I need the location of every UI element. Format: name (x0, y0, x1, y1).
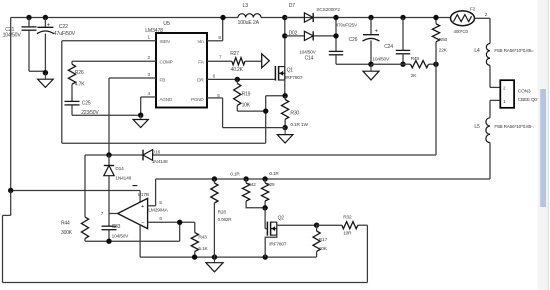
svg-text:C22: C22 (59, 24, 68, 30)
svg-text:R30: R30 (290, 111, 299, 117)
svg-text:L3: L3 (243, 3, 249, 9)
wire R19 bottom (237, 105, 265, 111)
node C21 rail junction (26, 15, 31, 20)
wire ISEN sense line (62, 142, 266, 144)
svg-text:ISEN: ISEN (160, 39, 170, 44)
capacitor C21 (3, 18, 37, 72)
svg-text:4.7K: 4.7K (75, 82, 85, 88)
op-amp U1 controller U5 LM3478 box (145, 21, 207, 107)
wire U5 pin4 AGND (141, 97, 156, 115)
wire sense line y155 (85, 154, 436, 156)
resistor R42 (230, 172, 265, 208)
wire R30 bottom (284, 119, 286, 127)
wire R44 drop (84, 155, 86, 217)
wire opamp pin5 path (148, 179, 156, 206)
node D7 cathode rail (333, 15, 338, 20)
wire gnd line (371, 63, 403, 65)
node pin6 junction (177, 220, 182, 225)
wire Q2 gate (265, 208, 267, 229)
svg-text:R29: R29 (266, 182, 275, 187)
svg-text:IRF7807: IRF7807 (269, 241, 287, 247)
resistor R29 (262, 171, 280, 208)
wire opamp pin6 line (148, 221, 195, 223)
svg-text:400*C0: 400*C0 (453, 29, 468, 34)
wire U5 pin7 FA (207, 60, 232, 62)
resistor R17 (313, 225, 328, 257)
diode D02 (285, 31, 336, 41)
diode D7 (285, 3, 341, 22)
wire L4 to CON3 (490, 65, 500, 87)
svg-text:R49: R49 (411, 56, 420, 62)
wire R26 to C25 (71, 84, 73, 101)
wire rail to Q1 column (284, 18, 286, 36)
node D7 anode rail (282, 15, 287, 20)
inductor L5 (474, 118, 533, 143)
wire Q1 drain (284, 36, 286, 67)
svg-text:0.062R: 0.062R (218, 217, 233, 222)
wire ISEN vertical (61, 41, 63, 143)
svg-text:104/50V: 104/50V (372, 57, 390, 63)
node AGND junction (138, 113, 143, 118)
ground G4 (363, 64, 379, 80)
resistor R32 (317, 215, 368, 237)
svg-text:L5: L5 (474, 124, 480, 130)
wire current setpoint bus (156, 178, 490, 180)
wire left vertical drop from rail (10, 18, 12, 191)
wire Q1 source (284, 80, 286, 96)
wire bottom rail (3, 282, 368, 284)
svg-text:R42: R42 (248, 182, 257, 187)
node D02 anode (282, 33, 287, 38)
svg-text:F5B RA56*10*0.85-.: F5B RA56*10*0.85-. (494, 124, 533, 129)
svg-text:R44: R44 (61, 221, 70, 227)
capacitor C26 electrolytic (336, 18, 380, 65)
svg-text:U17B: U17B (138, 192, 149, 198)
node FB D14 junction (106, 152, 111, 157)
svg-text:R32: R32 (343, 215, 352, 221)
resistor R49 (403, 56, 436, 79)
ground G3 (277, 128, 293, 143)
svg-text:104/50V: 104/50V (3, 33, 22, 39)
node C24 bottom (400, 61, 405, 66)
svg-text:0.1R: 0.1R (230, 172, 240, 177)
svg-text:D14: D14 (115, 166, 124, 172)
wire bottom feedback line (85, 240, 180, 242)
node R42 top (243, 176, 248, 181)
capacitor C14 (299, 49, 343, 61)
wire feedback vertical (435, 64, 437, 155)
svg-text:CON3: CON3 (518, 89, 531, 95)
node R42 R29 bottom junction (262, 205, 267, 210)
svg-text:C33: C33 (112, 224, 121, 230)
wire Q2 drain (277, 224, 317, 226)
resistor R43 (191, 222, 208, 257)
svg-text:R28: R28 (218, 209, 227, 215)
wire CON3 to L5 (490, 100, 500, 117)
svg-text:IRF7807: IRF7807 (285, 75, 303, 81)
resistor R26 (68, 61, 85, 87)
wire opamp out pin7 (109, 213, 118, 215)
svg-text:10K: 10K (242, 102, 251, 108)
inductor L4 (474, 44, 534, 66)
wire left bottom jog (3, 191, 11, 283)
svg-text:C24: C24 (384, 44, 393, 50)
capacitor C24 (372, 18, 410, 65)
wire U5 pin2 COMP (72, 60, 156, 62)
svg-text:D7: D7 (289, 3, 295, 9)
node C22 rail junction (43, 15, 48, 20)
node R29 top (262, 176, 267, 181)
ground G5 (206, 257, 223, 272)
svg-text:R43: R43 (198, 235, 207, 241)
scrollbar thumb (540, 89, 546, 207)
wire C25 bottom (72, 105, 141, 115)
svg-text:1N4148: 1N4148 (115, 176, 131, 182)
svg-text:R19: R19 (242, 92, 251, 98)
diode D16 (143, 150, 168, 165)
node R28 top (212, 176, 217, 181)
svg-text:Vin: Vin (197, 39, 204, 44)
ground G2 (133, 115, 148, 127)
svg-text:LM3478: LM3478 (145, 28, 163, 34)
resistor R19 (234, 79, 251, 108)
capacitor C33 (102, 214, 130, 242)
wire Q2 source (265, 235, 277, 257)
node R30 PGND junction (282, 125, 287, 130)
node R49 R50 junction (433, 61, 438, 66)
node left supply junction (8, 188, 13, 193)
wire R32 to bottom rail (366, 225, 368, 282)
svg-text:Q1: Q1 (287, 67, 294, 73)
svg-text:104/50V: 104/50V (112, 234, 130, 240)
capacitor C25 (65, 100, 100, 115)
resistor R44 (61, 217, 89, 241)
node C33 bottom junction (106, 239, 111, 244)
capacitor C22 (37, 18, 76, 73)
svg-text:1N4148: 1N4148 (152, 159, 168, 165)
svg-text:AGND: AGND (160, 97, 173, 102)
svg-text:40.2K: 40.2K (231, 67, 244, 73)
node D02 cathode (333, 33, 338, 38)
svg-text:F5B RA56*10*0.85=: F5B RA56*10*0.85= (494, 48, 534, 53)
svg-text:22K: 22K (439, 48, 448, 54)
svg-text:FB: FB (160, 78, 166, 83)
node Vin rail junction (220, 15, 225, 20)
svg-text:DR: DR (197, 78, 204, 83)
svg-text:10R: 10R (343, 230, 352, 236)
svg-text:+: + (47, 22, 50, 28)
resistor R30 (282, 96, 309, 128)
svg-text:PGND: PGND (191, 97, 204, 102)
resistor R50 (432, 18, 447, 65)
wire D7/D02 cathode column (335, 18, 337, 52)
wire top supply rail (11, 17, 451, 19)
scrollbar track (538, 0, 549, 290)
wire U5 pin3 FB (109, 77, 156, 79)
node gnd bottom (212, 254, 217, 259)
ground G1 (38, 73, 54, 88)
svg-text:U5: U5 (163, 21, 170, 27)
U5 pin names right (191, 39, 205, 102)
op-amp U17B LM2904A (101, 186, 169, 229)
svg-text:R17: R17 (319, 237, 328, 243)
svg-text:300K: 300K (61, 230, 73, 236)
svg-text:2K: 2K (411, 73, 417, 79)
wire U5 pin8 Vin (207, 18, 223, 41)
inductor L3 (238, 3, 262, 26)
svg-text:C14: C14 (305, 56, 314, 62)
wire U5 pin1 ISEN (62, 40, 156, 42)
svg-text:100uE 2A: 100uE 2A (238, 20, 260, 26)
svg-text:5.1K: 5.1K (198, 246, 208, 252)
wire R27 to buffer (245, 60, 262, 62)
svg-text:47uF/50V: 47uF/50V (54, 31, 76, 37)
svg-text:R50: R50 (439, 37, 448, 43)
wire C21 bottom to C22 bottom (29, 71, 45, 73)
node C24 rail (400, 15, 405, 20)
node output cap rail C26 (368, 15, 373, 20)
wire bottom common line (140, 256, 316, 258)
transistor Q2 IRF7807 (267, 215, 286, 247)
svg-text:D02: D02 (289, 31, 298, 37)
connector CON3 (500, 80, 541, 108)
transistor Q1 IRF7807 (275, 66, 302, 81)
wire F2 to L4 (475, 18, 491, 43)
svg-text:LM2904A: LM2904A (148, 208, 168, 214)
svg-text:+: + (375, 28, 378, 34)
resistor R28 (211, 179, 232, 257)
wire pin6 riser (179, 222, 181, 241)
svg-text:SCS2000*2: SCS2000*2 (316, 7, 340, 13)
wire C14 bottom (336, 55, 371, 64)
svg-text:C26: C26 (349, 37, 358, 43)
svg-text:10K: 10K (319, 246, 328, 252)
svg-text:470uF/25V: 470uF/25V (336, 23, 358, 28)
node R17 top (314, 223, 319, 228)
U5 pin numbers (148, 35, 223, 98)
wire ISEN riser (266, 96, 286, 143)
resistor R27 (230, 51, 245, 73)
wire opamp vminus (139, 225, 141, 257)
node R50 rail (433, 15, 438, 20)
svg-text:R27: R27 (230, 51, 239, 57)
svg-text:L4: L4 (474, 48, 480, 54)
svg-text:D16: D16 (152, 150, 161, 156)
wire FB vertical (108, 78, 110, 155)
node C21/C22 ground junction (43, 70, 48, 75)
node Q1 source junction (282, 93, 287, 98)
svg-text:COMP: COMP (160, 59, 173, 64)
svg-text:F2: F2 (470, 6, 476, 12)
node R43 bottom (192, 254, 197, 259)
node Q2 source bottom (263, 254, 268, 259)
buffer arrow (262, 54, 270, 68)
wire U5 pin6 DR gate drive (207, 78, 275, 80)
svg-text:0.1R 1W: 0.1R 1W (290, 122, 308, 128)
svg-text:R26: R26 (75, 70, 84, 76)
node DR R19 junction (235, 77, 240, 82)
U5 pin names left (160, 39, 173, 102)
svg-text:Q2: Q2 (278, 215, 285, 221)
svg-text:C25: C25 (82, 100, 91, 106)
svg-text:0.1R: 0.1R (269, 171, 279, 176)
fuse F2 (451, 6, 488, 34)
node ISEN node (263, 108, 268, 113)
wire opamp supply from left node (11, 191, 140, 203)
diode D14 (104, 155, 132, 214)
wire U5 pin5 PGND (207, 98, 285, 128)
node output gnd junction (368, 61, 373, 66)
wire L5 to bus (489, 143, 491, 179)
svg-text:104/50V: 104/50V (299, 49, 317, 55)
